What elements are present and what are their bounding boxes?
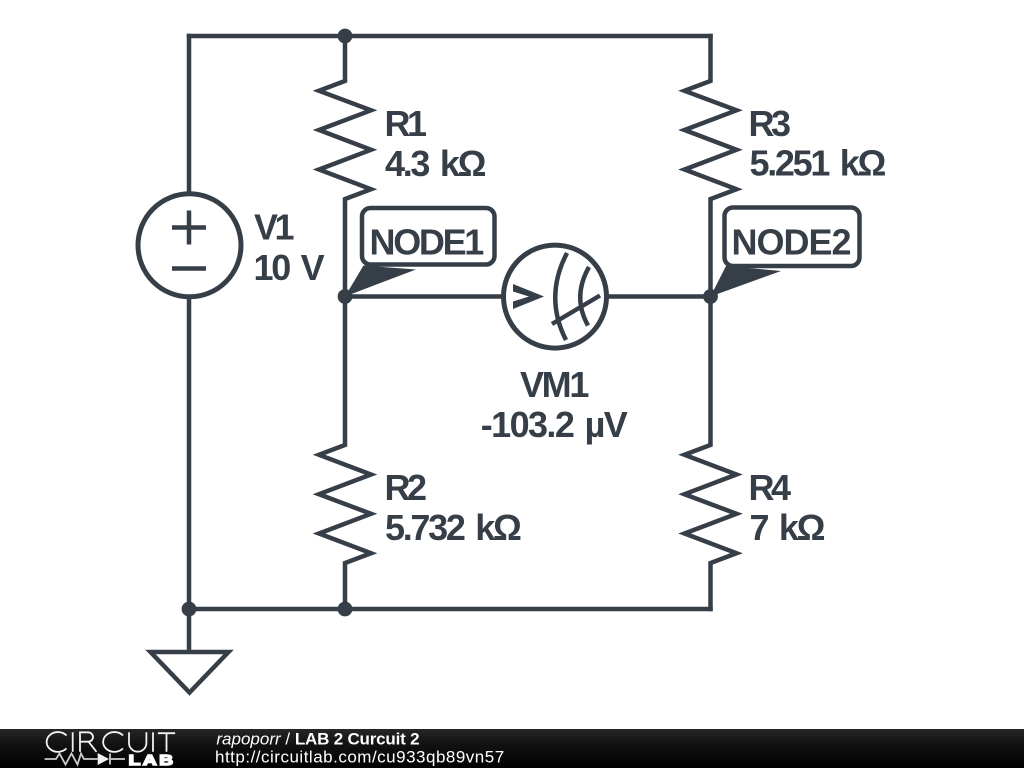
wire bottom rail	[189, 607, 711, 612]
logo CIRCUIT	[47, 732, 175, 752]
svg-text:R3: R3	[749, 103, 790, 144]
wire V1 bottom lead	[187, 299, 192, 610]
svg-text:V1: V1	[254, 207, 295, 248]
svg-text:R2: R2	[385, 467, 426, 508]
wire ground lead	[187, 609, 192, 652]
logo diode triangle	[98, 753, 109, 765]
svg-text:10 V: 10 V	[254, 247, 325, 288]
voltage source V1	[138, 194, 241, 297]
node NODE1 flag	[345, 208, 495, 297]
svg-text:R4: R4	[749, 467, 791, 508]
node NODE2 flag	[711, 208, 860, 297]
wire top rail	[189, 34, 711, 39]
label V1	[254, 207, 325, 289]
label R4	[749, 467, 825, 548]
label R2	[385, 467, 522, 548]
svg-text:rapoporr / LAB 2 Curcuit 2: rapoporr / LAB 2 Curcuit 2	[216, 730, 419, 749]
svg-text:5.251 kΩ: 5.251 kΩ	[750, 143, 886, 184]
wire voltmeter to node2	[605, 294, 711, 299]
junction dot node2	[703, 289, 718, 304]
svg-text:NODE1: NODE1	[370, 222, 485, 263]
svg-text:5.732 kΩ: 5.732 kΩ	[385, 507, 521, 548]
resistor R1	[319, 36, 371, 297]
svg-text:http://circuitlab.com/cu933qb8: http://circuitlab.com/cu933qb89vn57	[215, 748, 505, 767]
junction dot bottom left	[182, 602, 197, 617]
voltmeter VM1	[504, 245, 607, 348]
junction dot node1	[338, 289, 353, 304]
junction dot top	[338, 29, 353, 44]
label R1	[385, 103, 486, 184]
resistor R4	[685, 297, 737, 610]
logo resistor-diode squiggle	[45, 754, 125, 765]
svg-text:VM1: VM1	[520, 364, 589, 405]
resistor R3	[685, 36, 737, 297]
svg-text:NODE2: NODE2	[732, 222, 851, 263]
label VM1	[481, 364, 628, 445]
junction dot bottom mid	[338, 602, 353, 617]
svg-text:-103.2 µV: -103.2 µV	[481, 404, 628, 445]
svg-text:R1: R1	[385, 103, 427, 144]
ground	[151, 652, 229, 693]
resistor R2	[319, 297, 371, 610]
label R3	[749, 103, 886, 184]
svg-text:LAB: LAB	[129, 752, 176, 768]
svg-text:4.3 kΩ: 4.3 kΩ	[385, 143, 486, 184]
footer bar	[0, 729, 1024, 768]
svg-text:7 kΩ: 7 kΩ	[750, 507, 825, 548]
wire V1 top lead	[187, 36, 192, 193]
wire node1 to voltmeter	[345, 294, 505, 299]
